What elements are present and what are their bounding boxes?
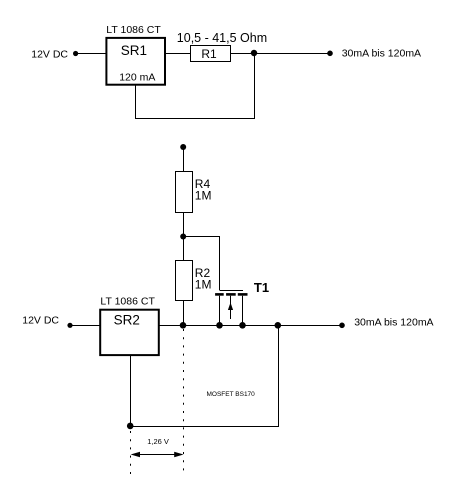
svg-text:SR2: SR2	[114, 313, 140, 328]
svg-text:1M: 1M	[195, 189, 212, 203]
svg-text:SR1: SR1	[121, 43, 147, 58]
svg-text:120 mA: 120 mA	[119, 72, 155, 84]
svg-text:T1: T1	[254, 280, 269, 295]
svg-text:30mA bis 120mA: 30mA bis 120mA	[354, 317, 433, 329]
svg-text:12V DC: 12V DC	[31, 48, 68, 60]
svg-text:12V DC: 12V DC	[22, 315, 59, 327]
svg-text:LT 1086 CT: LT 1086 CT	[106, 24, 161, 36]
svg-text:30mA bis 120mA: 30mA bis 120mA	[342, 48, 421, 60]
svg-text:1,26 V: 1,26 V	[147, 437, 169, 446]
svg-text:MOSFET BS170: MOSFET BS170	[207, 391, 256, 398]
svg-text:1M: 1M	[195, 277, 212, 291]
svg-text:R1: R1	[201, 47, 217, 61]
svg-text:10,5 - 41,5 Ohm: 10,5 - 41,5 Ohm	[177, 31, 267, 45]
svg-text:LT 1086 CT: LT 1086 CT	[100, 295, 155, 307]
